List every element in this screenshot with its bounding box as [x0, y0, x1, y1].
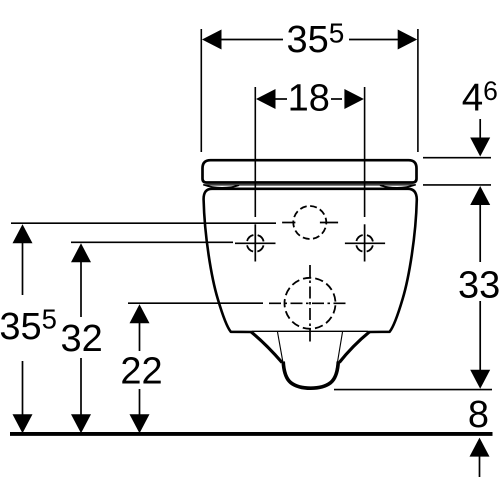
bowl underside right arc (thick)	[339, 332, 369, 363]
dim 32: arrow down	[71, 414, 91, 433]
svg-text:8: 8	[468, 394, 489, 436]
seat top thin line	[203, 184, 416, 186]
dim 18: arrow right	[344, 89, 364, 109]
dim 8: arrow up below floor	[470, 438, 490, 457]
floor line (thick)	[10, 432, 493, 436]
flush pipe circle crosshair left tick	[282, 222, 295, 224]
dim 35.5 top: extension line left	[200, 29, 202, 152]
svg-text:22: 22	[120, 350, 162, 392]
dim 35.5 top: arrow right	[398, 30, 418, 50]
svg-text:33: 33	[458, 265, 500, 307]
trap outlet cup (thick U)	[283, 362, 338, 389]
trap bottom reference line	[334, 389, 492, 391]
fixing hole left (dashed circle)	[247, 235, 264, 252]
flush pipe circle (dashed, top center)	[293, 206, 326, 239]
dim 8: shaft	[479, 456, 481, 477]
outlet circle crosshair horizontal (dash-dot)	[269, 302, 347, 304]
dim 22: arrow down	[130, 414, 150, 433]
svg-text:32: 32	[61, 318, 103, 360]
dim 33: arrow down (tip at trap bottom line)	[470, 370, 490, 389]
dim 35.5 top: line right segment	[349, 39, 399, 41]
svg-text:355: 355	[0, 303, 57, 348]
dim 32: shaft lower	[80, 358, 82, 416]
fixing hole left crosshair	[235, 242, 276, 244]
trap cover right edge (thin slant)	[336, 332, 343, 371]
dim 4.6: arrow shaft	[479, 119, 481, 139]
svg-text:46: 46	[462, 76, 498, 119]
bowl underside left arc (thick)	[251, 332, 282, 363]
flush pipe circle crosshair right tick	[320, 222, 338, 224]
toilet lid (seat cover, rounded rect)	[203, 160, 417, 182]
dim 32: shaft upper	[80, 261, 82, 317]
dim 22: reference line (outlet center)	[128, 302, 263, 304]
svg-text:18: 18	[288, 78, 330, 120]
body bottom thin line	[252, 330, 368, 332]
fixing hole right crosshair	[345, 242, 385, 244]
dim 35.5 top: extension line right	[417, 29, 419, 152]
dim 18: line right segment	[331, 98, 342, 100]
dim 35.5 left: shaft lower	[22, 361, 24, 416]
dim 22: shaft lower	[139, 389, 141, 416]
seat bumper right (crescent)	[380, 185, 415, 188]
dim 18: extension line left	[254, 87, 256, 217]
dim 33: arrow up (tip at seat bottom line)	[470, 186, 490, 205]
dim 18: line left segment	[274, 98, 287, 100]
dim 35.5 left: shaft upper	[22, 242, 24, 295]
outlet circle (large dashed, bottom center)	[285, 278, 336, 329]
trap cover left edge (thin slant)	[278, 332, 285, 371]
dim 35.5 top: arrow left	[202, 30, 222, 50]
outlet circle crosshair vertical (dash-dot)	[309, 265, 311, 345]
seat bumper left (crescent)	[204, 185, 239, 188]
svg-text:355: 355	[287, 18, 345, 62]
dim 35.5 left: arrow up	[13, 224, 33, 243]
dim 35.5 left: arrow down	[13, 414, 33, 433]
dim 33: shaft lower	[479, 301, 481, 372]
dim 4.6: arrow down (above top line)	[470, 138, 490, 157]
dim 4.6 right: reference line bottom / 33 top (seat bottom)	[423, 184, 491, 186]
toilet body outline	[204, 189, 417, 332]
fixing hole right (dashed circle)	[356, 235, 373, 252]
dim 33: shaft upper	[479, 204, 481, 262]
dim 18: extension line right	[364, 87, 366, 217]
dim 4.6 right: reference line top (lid top)	[423, 157, 491, 159]
dim 35.5 top: line left segment	[220, 39, 283, 41]
dim 32: arrow up	[71, 243, 91, 262]
dim 22: arrow up	[130, 304, 150, 323]
dim 35.5 left: reference line (flush pipe center)	[11, 222, 276, 224]
dim 22: shaft upper	[139, 322, 141, 351]
dim 18: arrow left	[256, 89, 276, 109]
dim 32: reference line (fixing holes center)	[71, 241, 233, 243]
